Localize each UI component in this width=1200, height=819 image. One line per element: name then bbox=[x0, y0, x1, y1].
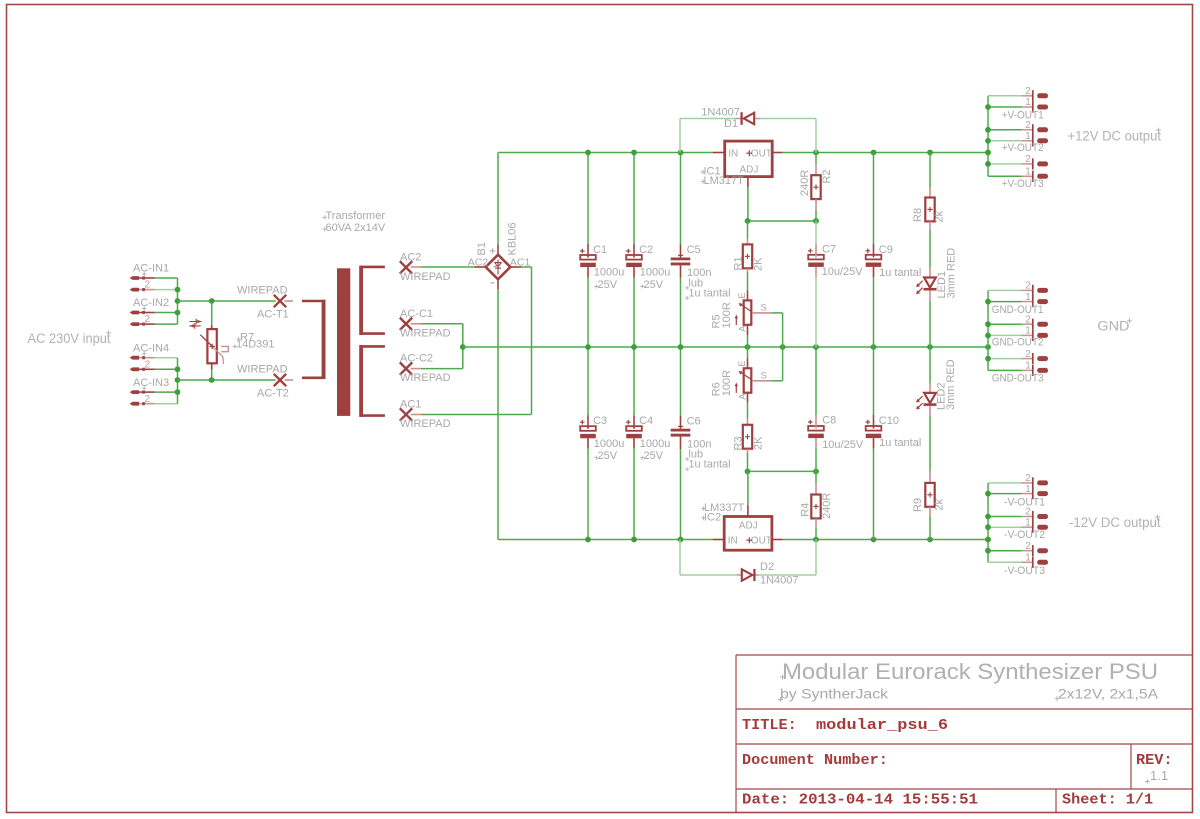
svg-text:WIREPAD: WIREPAD bbox=[400, 372, 451, 384]
svg-text:AC-C1: AC-C1 bbox=[400, 308, 433, 320]
svg-text:REV:: REV: bbox=[1136, 751, 1172, 769]
svg-text:1u tantal: 1u tantal bbox=[879, 437, 921, 449]
svg-text:R2: R2 bbox=[821, 169, 833, 183]
svg-text:R9: R9 bbox=[912, 498, 924, 512]
svg-text:1u tantal: 1u tantal bbox=[688, 459, 730, 471]
junction dots -V trunk bbox=[985, 491, 991, 497]
svg-text:1000u: 1000u bbox=[594, 267, 625, 279]
svg-text:A: A bbox=[737, 393, 748, 400]
wirepad AC-C1 bbox=[400, 308, 451, 340]
svg-text:WIREPAD: WIREPAD bbox=[237, 284, 288, 296]
wire ADJ1 node horizontal bbox=[748, 220, 817, 222]
svg-text:1: 1 bbox=[1025, 326, 1031, 337]
wire to AC-T1 bbox=[178, 300, 276, 302]
svg-text:14D391: 14D391 bbox=[236, 339, 275, 351]
svg-text:OUT: OUT bbox=[751, 148, 772, 159]
svg-text:60VA 2x14V: 60VA 2x14V bbox=[326, 222, 386, 234]
svg-text:GND-OUT1: GND-OUT1 bbox=[992, 304, 1044, 316]
title block frame bbox=[736, 655, 1192, 813]
svg-text:C10: C10 bbox=[879, 415, 899, 427]
svg-text:3mm RED: 3mm RED bbox=[945, 359, 957, 410]
svg-text:AC-T1: AC-T1 bbox=[257, 309, 289, 321]
svg-text:2: 2 bbox=[1025, 473, 1031, 484]
wire AC2 to bridge bbox=[411, 266, 422, 268]
wire AC-C1 to center tap bbox=[411, 323, 422, 325]
svg-text:240R: 240R bbox=[821, 493, 833, 519]
svg-text:OUT: OUT bbox=[751, 535, 772, 546]
svg-text:AC1: AC1 bbox=[510, 256, 531, 268]
wire ADJ1 down bbox=[747, 187, 749, 221]
svg-text:2x12V, 2x1,5A: 2x12V, 2x1,5A bbox=[1058, 686, 1159, 702]
svg-text:-12V DC output: -12V DC output bbox=[1069, 515, 1161, 530]
svg-text:R3: R3 bbox=[733, 436, 745, 450]
svg-text:KBL06: KBL06 bbox=[507, 222, 519, 255]
wire +12V rail bbox=[498, 152, 713, 154]
svg-text:C1: C1 bbox=[593, 244, 607, 256]
wire ADJ2 node horizontal bbox=[748, 470, 817, 472]
svg-text:modular_psu_6: modular_psu_6 bbox=[816, 716, 948, 734]
svg-text:1: 1 bbox=[1025, 97, 1031, 108]
svg-text:AC-T2: AC-T2 bbox=[257, 388, 289, 400]
svg-text:GND-OUT2: GND-OUT2 bbox=[992, 336, 1044, 348]
svg-text:IN: IN bbox=[728, 535, 738, 546]
svg-text:AC-IN1: AC-IN1 bbox=[133, 263, 169, 275]
svg-text:25V: 25V bbox=[644, 279, 664, 291]
svg-text:C7: C7 bbox=[822, 244, 836, 256]
regulator IC1 LM317T bbox=[701, 141, 783, 187]
svg-text:2: 2 bbox=[145, 280, 151, 291]
junction center tap bbox=[460, 344, 466, 350]
svg-text:2: 2 bbox=[145, 359, 151, 370]
connector +V-OUT1/2/3 group bbox=[988, 86, 1048, 190]
svg-text:1: 1 bbox=[1025, 292, 1031, 303]
resistor R4 240R bbox=[800, 471, 834, 539]
svg-text:2k: 2k bbox=[934, 210, 946, 222]
svg-text:3mm RED: 3mm RED bbox=[946, 248, 958, 299]
svg-text:AC-IN3: AC-IN3 bbox=[133, 377, 169, 389]
trimmer R6 100R bbox=[710, 347, 782, 419]
junction bbox=[175, 366, 181, 372]
led LED1 3mm RED bbox=[916, 248, 957, 347]
svg-text:ADJ: ADJ bbox=[739, 521, 758, 532]
svg-text:+V-OUT2: +V-OUT2 bbox=[1002, 142, 1044, 154]
svg-text:25V: 25V bbox=[644, 450, 664, 462]
svg-text:D2: D2 bbox=[760, 561, 774, 573]
svg-text:10u/25V: 10u/25V bbox=[822, 439, 864, 451]
svg-text:+V-OUT3: +V-OUT3 bbox=[1002, 178, 1044, 190]
svg-text:2: 2 bbox=[1025, 541, 1031, 552]
svg-text:+12V DC output: +12V DC output bbox=[1068, 128, 1162, 143]
svg-text:1u tantal: 1u tantal bbox=[688, 287, 730, 299]
svg-text:1: 1 bbox=[1025, 553, 1031, 564]
svg-text:1: 1 bbox=[1025, 517, 1031, 528]
junction bbox=[745, 218, 751, 224]
svg-text:Sheet: 1/1: Sheet: 1/1 bbox=[1062, 791, 1153, 809]
svg-text:ADJ: ADJ bbox=[740, 165, 759, 176]
capacitor C6 bbox=[671, 347, 731, 540]
svg-text:E: E bbox=[737, 292, 748, 298]
junction R7 top bbox=[209, 298, 215, 304]
svg-text:R4: R4 bbox=[800, 503, 812, 517]
svg-text:25V: 25V bbox=[598, 450, 618, 462]
svg-text:1000u: 1000u bbox=[594, 438, 625, 450]
junction bbox=[745, 469, 751, 475]
svg-text:Date: 2013-04-14 15:55:51: Date: 2013-04-14 15:55:51 bbox=[742, 791, 978, 809]
wire AC1 to bridge bbox=[411, 414, 422, 416]
trimmer R5 100R bbox=[710, 291, 782, 348]
junction R7 bottom bbox=[209, 377, 215, 383]
svg-text:D1: D1 bbox=[724, 118, 738, 130]
capacitor C1 bbox=[580, 153, 624, 348]
connector AC-IN2 bbox=[130, 297, 178, 326]
svg-text:+V-OUT1: +V-OUT1 bbox=[1002, 109, 1044, 121]
wirepad AC-T2 bbox=[237, 363, 293, 399]
svg-text:1: 1 bbox=[1025, 131, 1031, 142]
resistor R8 2k bbox=[912, 153, 946, 268]
svg-text:LM317T: LM317T bbox=[704, 175, 745, 187]
svg-text:Transformer: Transformer bbox=[326, 210, 386, 222]
svg-text:C8: C8 bbox=[822, 414, 836, 426]
resistor R2 240R bbox=[799, 153, 833, 222]
capacitor C4 bbox=[626, 347, 670, 540]
svg-text:WIREPAD: WIREPAD bbox=[400, 418, 451, 430]
svg-text:AC-IN2: AC-IN2 bbox=[133, 297, 169, 309]
svg-text:-V-OUT1: -V-OUT1 bbox=[1004, 496, 1045, 508]
svg-text:E: E bbox=[737, 360, 748, 366]
svg-text:100R: 100R bbox=[721, 302, 733, 328]
svg-text:by SyntherJack: by SyntherJack bbox=[780, 686, 889, 702]
svg-text:AC2: AC2 bbox=[400, 251, 421, 263]
junction bbox=[175, 287, 181, 293]
svg-text:-V-OUT3: -V-OUT3 bbox=[1004, 565, 1045, 577]
svg-text:AC-C2: AC-C2 bbox=[400, 353, 433, 365]
svg-text:Modular Eurorack Synthesizer P: Modular Eurorack Synthesizer PSU bbox=[782, 659, 1158, 684]
wirepad AC-C2 bbox=[400, 353, 451, 385]
svg-text:1: 1 bbox=[1025, 167, 1031, 178]
svg-text:2: 2 bbox=[1025, 120, 1031, 131]
svg-text:AC-IN4: AC-IN4 bbox=[133, 342, 169, 354]
wire trunk of AC-IN4/AC-IN3 bbox=[177, 358, 179, 404]
wire bridge plus up bbox=[497, 153, 499, 245]
svg-text:TITLE:: TITLE: bbox=[742, 716, 797, 734]
junction dots top rail bbox=[585, 150, 591, 156]
resistor R9 2k bbox=[912, 471, 946, 540]
svg-text:1: 1 bbox=[1025, 361, 1031, 372]
svg-text:240R: 240R bbox=[799, 170, 811, 196]
svg-text:1u tantal: 1u tantal bbox=[879, 267, 921, 279]
wire to AC-T2 bbox=[178, 379, 276, 381]
capacitor C9 bbox=[866, 153, 922, 348]
svg-text:-V-OUT2: -V-OUT2 bbox=[1004, 529, 1045, 541]
svg-text:1N4007: 1N4007 bbox=[760, 574, 799, 586]
wire bridge minus down bbox=[497, 290, 499, 540]
connector GND-OUT1/2/3 group bbox=[988, 281, 1048, 385]
svg-text:25V: 25V bbox=[598, 279, 618, 291]
led LED2 3mm RED bbox=[916, 347, 957, 471]
svg-text:2: 2 bbox=[145, 314, 151, 325]
diode D2 1N4007 bbox=[680, 540, 816, 587]
svg-text:C5: C5 bbox=[687, 244, 701, 256]
capacitor C3 bbox=[580, 347, 624, 540]
regulator IC2 LM337T bbox=[701, 502, 782, 550]
wire trunk of AC-IN1/AC-IN2 bbox=[177, 278, 179, 324]
connector AC-IN1 bbox=[130, 263, 178, 292]
svg-text:C2: C2 bbox=[639, 244, 653, 256]
wire S link R5-R6 bbox=[782, 313, 784, 381]
varistor R7 bbox=[189, 301, 274, 380]
svg-text:10u/25V: 10u/25V bbox=[822, 266, 864, 278]
wire ADJ2 up bbox=[747, 471, 749, 505]
svg-text:Document Number:: Document Number: bbox=[742, 751, 888, 769]
svg-text:1N4007: 1N4007 bbox=[701, 107, 740, 119]
svg-text:C9: C9 bbox=[879, 244, 893, 256]
connector AC-IN3 bbox=[130, 377, 178, 406]
resistor R1 2K bbox=[733, 221, 765, 291]
junction dots bottom rail bbox=[585, 537, 591, 543]
svg-text:C3: C3 bbox=[593, 415, 607, 427]
svg-text:B1: B1 bbox=[476, 242, 488, 255]
svg-text:1.1: 1.1 bbox=[1150, 768, 1168, 783]
svg-text:AC1: AC1 bbox=[400, 399, 421, 411]
svg-text:WIREPAD: WIREPAD bbox=[237, 363, 288, 375]
resistor R3 2K bbox=[733, 419, 765, 472]
wirepad AC2 bbox=[400, 251, 451, 283]
svg-text:2: 2 bbox=[145, 394, 151, 405]
svg-text:GND-OUT3: GND-OUT3 bbox=[992, 373, 1044, 385]
junction dots gnd rail bbox=[585, 344, 591, 350]
capacitor C5 bbox=[671, 153, 731, 348]
svg-text:C6: C6 bbox=[687, 415, 701, 427]
svg-text:2: 2 bbox=[1025, 314, 1031, 325]
svg-text:IN: IN bbox=[728, 148, 738, 159]
capacitor C7 bbox=[808, 221, 863, 347]
capacitor C2 bbox=[626, 153, 670, 348]
wirepad AC-T1 bbox=[237, 284, 293, 320]
svg-text:S: S bbox=[761, 303, 767, 314]
wire -12V rail bbox=[498, 539, 713, 541]
capacitor C10 bbox=[866, 347, 922, 540]
svg-text:S: S bbox=[761, 370, 767, 381]
svg-text:WIREPAD: WIREPAD bbox=[400, 327, 451, 339]
svg-text:100R: 100R bbox=[721, 370, 733, 396]
svg-text:AC2: AC2 bbox=[468, 256, 489, 268]
svg-text:2K: 2K bbox=[753, 257, 765, 271]
junction dots +V trunk bbox=[985, 104, 991, 110]
svg-text:A: A bbox=[737, 325, 748, 332]
diode D1 1N4007 bbox=[680, 107, 816, 153]
svg-text:GND: GND bbox=[1097, 319, 1129, 334]
wirepad AC1 bbox=[400, 399, 451, 431]
transformer TR1 bbox=[302, 266, 385, 417]
svg-text:1000u: 1000u bbox=[640, 267, 671, 279]
svg-text:R8: R8 bbox=[912, 208, 924, 222]
bridge rectifier B1 bbox=[468, 222, 531, 289]
svg-text:1: 1 bbox=[1025, 484, 1031, 495]
svg-text:2: 2 bbox=[1025, 86, 1031, 97]
svg-text:2k: 2k bbox=[934, 498, 946, 510]
wire GND rail bbox=[463, 346, 988, 348]
wire AC-C2 to center tap bbox=[411, 368, 422, 370]
svg-text:2: 2 bbox=[1025, 281, 1031, 292]
svg-text:IC2: IC2 bbox=[704, 511, 721, 523]
svg-text:2: 2 bbox=[1025, 154, 1031, 165]
svg-text:WIREPAD: WIREPAD bbox=[400, 271, 451, 283]
junction dots GND trunk bbox=[985, 299, 991, 305]
svg-text:2: 2 bbox=[1025, 349, 1031, 360]
svg-text:AC 230V input: AC 230V input bbox=[28, 331, 111, 346]
svg-text:2K: 2K bbox=[753, 436, 765, 450]
capacitor C8 bbox=[808, 347, 864, 471]
connector AC-IN4 bbox=[130, 342, 178, 371]
svg-text:C4: C4 bbox=[639, 415, 653, 427]
svg-text:1000u: 1000u bbox=[640, 438, 671, 450]
connector -V-OUT1/2/3 group bbox=[988, 473, 1048, 577]
svg-text:R1: R1 bbox=[733, 256, 745, 270]
